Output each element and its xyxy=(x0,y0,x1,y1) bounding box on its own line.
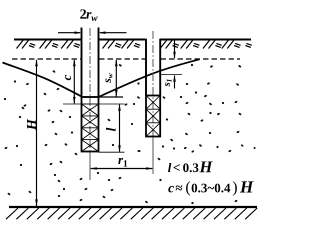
ground hatch band xyxy=(17,40,252,49)
static water table dashed line xyxy=(12,58,240,60)
observation well W2 screen box xyxy=(146,96,160,137)
s1 lower arrow xyxy=(173,75,176,89)
svg-text:c: c xyxy=(59,74,74,80)
H dimension line xyxy=(35,59,38,206)
svg-text:l<0.3H: l<0.3H xyxy=(168,157,214,176)
2rw dimension arrows xyxy=(58,31,127,34)
svg-text:H: H xyxy=(25,118,40,131)
pumping well W1 screen box xyxy=(82,97,99,152)
bottom hatch band xyxy=(6,208,257,219)
svg-text:l: l xyxy=(104,127,119,131)
r1 dimension line xyxy=(90,167,153,170)
extension line y104 xyxy=(63,103,125,105)
s1 upper arrow xyxy=(173,41,176,59)
ground surface line xyxy=(14,39,251,41)
c dimension line xyxy=(73,59,76,104)
water level line in well xyxy=(82,96,124,98)
pumping well W1 casing xyxy=(82,28,99,98)
impermeable bottom line xyxy=(9,206,257,208)
svg-text:s1: s1 xyxy=(162,79,174,88)
svg-text:c≈(0.3~0.4)H: c≈(0.3~0.4)H xyxy=(168,177,254,196)
drawdown curve right branch xyxy=(99,59,200,97)
observation well W2 centerline xyxy=(152,31,154,136)
sw dimension line xyxy=(115,59,118,97)
l dimension line xyxy=(118,104,121,152)
pumping well W1 centerline xyxy=(89,28,91,151)
drawdown curve left branch xyxy=(3,63,82,97)
extension line at screen bottom xyxy=(99,151,125,153)
observation well W2 casing xyxy=(146,39,160,96)
soil dots texture xyxy=(4,64,256,205)
extension line s1 bottom xyxy=(161,74,183,76)
